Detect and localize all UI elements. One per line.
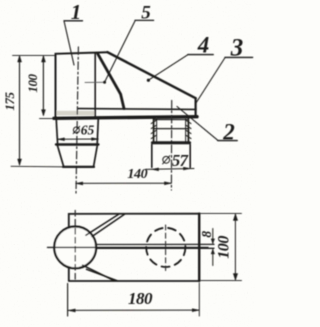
svg-text:4: 4 [197, 32, 210, 57]
svg-text:2: 2 [222, 119, 235, 144]
svg-text:57: 57 [172, 151, 190, 170]
svg-text:65: 65 [81, 122, 95, 137]
svg-text:8: 8 [199, 231, 214, 238]
svg-text:100: 100 [216, 236, 233, 259]
svg-text:140: 140 [127, 167, 147, 182]
svg-text:3: 3 [230, 34, 244, 61]
svg-text:1: 1 [71, 0, 82, 24]
svg-text:175: 175 [2, 91, 17, 110]
svg-text:5: 5 [141, 2, 151, 23]
svg-text:100: 100 [25, 73, 40, 92]
svg-text:180: 180 [128, 289, 153, 308]
